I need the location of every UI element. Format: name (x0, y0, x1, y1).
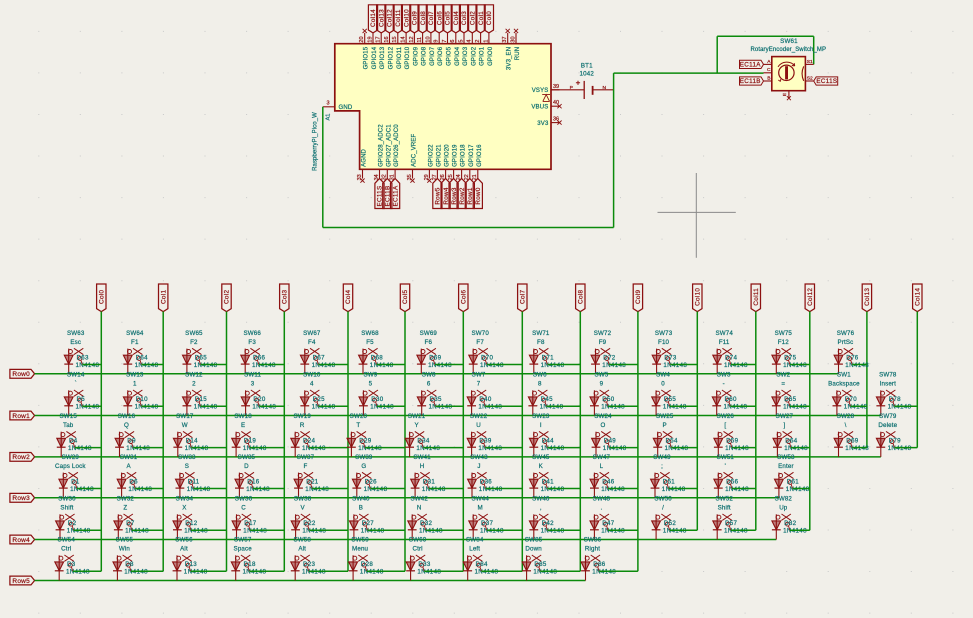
svg-text:GPIO14: GPIO14 (372, 46, 378, 69)
svg-text:SW28: SW28 (837, 413, 855, 420)
svg-text:D84: D84 (476, 561, 489, 568)
wire SW58 to Col4 (309, 570, 348, 572)
svg-text:F10: F10 (658, 339, 670, 346)
mcu pin 24 GPIO18 (461, 169, 463, 178)
wire SW18 to Col3 (250, 447, 285, 449)
svg-text:D70: D70 (845, 396, 858, 403)
diode D45 1N4148 (532, 390, 534, 415)
svg-text:1N4148: 1N4148 (243, 569, 267, 576)
svg-text:SW12: SW12 (185, 372, 203, 379)
svg-text:1N4148: 1N4148 (428, 362, 452, 369)
svg-text:D16: D16 (247, 478, 260, 485)
svg-text:SW58: SW58 (293, 537, 311, 544)
switch SW40 "B" (354, 515, 358, 519)
svg-text:D54: D54 (666, 437, 679, 444)
wire SW39 to Col5 (370, 488, 405, 490)
svg-text:SW20: SW20 (350, 413, 368, 420)
wire SW56 to Col2 (191, 570, 227, 572)
diode D23 1N4148 (294, 555, 296, 580)
svg-text:BT1: BT1 (581, 63, 593, 70)
svg-text:D45: D45 (541, 396, 554, 403)
diode D69 1N4148 (838, 432, 840, 457)
switch SW29 "Caps Lock" (63, 474, 67, 478)
svg-text:D70: D70 (481, 354, 494, 361)
svg-text:RotaryEncoder_Switch_MP: RotaryEncoder_Switch_MP (750, 47, 826, 53)
svg-text:D27: D27 (362, 520, 375, 527)
svg-text:T: T (356, 422, 360, 429)
svg-text:1N4148: 1N4148 (602, 362, 626, 369)
wire column Col1 (162, 312, 164, 572)
wire column Col13 (866, 312, 868, 448)
svg-text:1N4148: 1N4148 (417, 569, 441, 576)
diode D73 1N4148 (656, 349, 658, 374)
label EC11B (740, 77, 764, 85)
svg-text:14: 14 (401, 36, 407, 42)
mcu internal diode VBUS-VSYS (542, 95, 550, 102)
wire SW19 to Col4 (309, 447, 348, 449)
wire SW73 to Col10 (670, 364, 697, 366)
svg-text:D74: D74 (725, 354, 738, 361)
svg-text:SW67: SW67 (303, 330, 321, 337)
battery BT1 1042 (551, 89, 584, 91)
switch SW86 "Right" (585, 556, 589, 560)
svg-text:GND: GND (339, 105, 353, 111)
svg-text:1N4148: 1N4148 (663, 528, 687, 535)
svg-text:SW78: SW78 (879, 372, 897, 379)
svg-text:GPIO10: GPIO10 (405, 46, 411, 69)
svg-text:D55: D55 (664, 396, 677, 403)
wire row Row4 (35, 539, 777, 541)
diode D86 1N4148 (585, 555, 587, 580)
svg-text:W: W (182, 422, 188, 429)
svg-text:1N4148: 1N4148 (725, 445, 749, 452)
wire bottom horizontal (323, 227, 614, 229)
switch SW4 "0" (656, 391, 660, 395)
diode D64 1N4148 (127, 349, 129, 374)
svg-text:SW23: SW23 (532, 413, 550, 420)
svg-text:Shift: Shift (60, 505, 73, 512)
mcu pin 22 GPIO17 (469, 169, 471, 178)
wire row Row1 (35, 415, 881, 417)
svg-text:1N4148: 1N4148 (845, 362, 869, 369)
diode D22 1N4148 (295, 514, 297, 539)
diode D33 1N4148 (410, 555, 412, 580)
svg-text:SW76: SW76 (837, 330, 855, 337)
svg-text:SW47: SW47 (593, 454, 611, 461)
svg-text:Col13: Col13 (864, 288, 871, 306)
svg-text:Col0: Col0 (99, 289, 106, 303)
wire SW29 to Col0 (77, 488, 101, 490)
wire SW13 to Col1 (141, 405, 163, 407)
wire SW43 to Col7 (486, 488, 523, 490)
diode D79 1N4148 (880, 432, 882, 457)
switch SW39 "G" (357, 474, 361, 478)
svg-text:1N4148: 1N4148 (541, 362, 565, 369)
svg-text:D69: D69 (846, 437, 859, 444)
diode D74 1N4148 (716, 349, 718, 374)
svg-text:SW10: SW10 (303, 372, 321, 379)
svg-text:SW19: SW19 (293, 413, 311, 420)
svg-text:B: B (359, 505, 363, 512)
svg-text:EC11A: EC11A (392, 185, 399, 206)
switch SW32 "Z" (118, 515, 122, 519)
svg-text:D51: D51 (663, 478, 676, 485)
svg-text:1N4148: 1N4148 (70, 486, 94, 493)
wire column Col8 (579, 312, 581, 572)
switch SW15 "Tab" (61, 433, 65, 437)
label Row1 (10, 411, 35, 420)
svg-text:ADC_VREF: ADC_VREF (412, 134, 418, 167)
rotary encoder SW61 (772, 57, 806, 91)
switch SW21 "Y" (409, 433, 413, 437)
svg-text:D37: D37 (481, 520, 494, 527)
svg-text:1N4148: 1N4148 (784, 445, 808, 452)
svg-text:SW86: SW86 (584, 537, 602, 544)
svg-text:Y: Y (414, 422, 418, 429)
svg-text:V: V (300, 505, 305, 512)
svg-text:D34: D34 (417, 437, 430, 444)
svg-text:D49: D49 (604, 437, 617, 444)
svg-text:1N4148: 1N4148 (126, 445, 150, 452)
svg-text:1N4148: 1N4148 (478, 404, 502, 411)
svg-text:D30: D30 (371, 396, 384, 403)
wire SW60 to Col6 (424, 570, 463, 572)
wire row Row0 (35, 373, 839, 375)
svg-text:17: 17 (376, 36, 382, 42)
diode D36 1N4148 (471, 473, 473, 498)
svg-text:SW11: SW11 (244, 372, 261, 379)
mcu pin 14 GPIO10 (405, 33, 407, 44)
wire SW84 to Col7 (481, 570, 522, 572)
svg-text:SW41: SW41 (413, 454, 431, 461)
svg-text:J: J (477, 463, 480, 470)
switch SW6 "8" (533, 391, 537, 395)
wire SW23 to Col8 (547, 447, 580, 449)
wire SW57 to Col3 (249, 570, 284, 572)
switch SW49 ";" (655, 474, 659, 478)
mcu pin 27 GPIO21 (436, 169, 438, 178)
wire SW12 to Col2 (201, 405, 227, 407)
diode D3 1N4148 (58, 555, 60, 580)
svg-text:Col0: Col0 (486, 11, 493, 25)
svg-text:D78: D78 (889, 396, 902, 403)
svg-text:1N4148: 1N4148 (135, 404, 159, 411)
svg-text:SW69: SW69 (420, 330, 438, 337)
switch SW60 "Ctrl" (410, 556, 414, 560)
svg-text:1N4148: 1N4148 (601, 486, 625, 493)
wire SW36 to Col3 (250, 529, 284, 531)
diode D49 1N4148 (595, 432, 597, 457)
diode D65 1N4148 (775, 390, 777, 415)
diode D24 1N4148 (294, 432, 296, 457)
svg-text:11: 11 (417, 37, 423, 43)
label Col4 (343, 284, 352, 312)
diode D84 1N4148 (467, 555, 469, 580)
svg-text:Col14: Col14 (915, 288, 922, 306)
svg-text:Row4: Row4 (12, 537, 30, 544)
svg-text:PrtSc: PrtSc (838, 339, 854, 346)
switch SW38 "V" (295, 515, 299, 519)
label Row2 (10, 453, 35, 462)
svg-text:O: O (601, 422, 606, 429)
svg-text:Right: Right (585, 546, 600, 553)
label Col2 (222, 284, 231, 312)
switch SW41 "H" (415, 474, 419, 478)
svg-text:D1: D1 (71, 478, 80, 485)
svg-text:D26: D26 (365, 478, 378, 485)
mcu pin 30 RUN (515, 33, 517, 44)
switch SW7 "7" (471, 391, 475, 395)
svg-text:SW53: SW53 (777, 454, 795, 461)
svg-text:1N4148: 1N4148 (541, 528, 565, 535)
svg-text:SW29: SW29 (62, 454, 80, 461)
svg-text:1N4148: 1N4148 (888, 404, 912, 411)
svg-text:1N4148: 1N4148 (128, 486, 152, 493)
svg-text:D2: D2 (68, 520, 77, 527)
svg-text:SW60: SW60 (409, 537, 427, 544)
switch SW9 "5" (363, 391, 367, 395)
svg-text:SW26: SW26 (717, 413, 735, 420)
switch SW45 "K" (534, 474, 538, 478)
svg-text:F4: F4 (308, 339, 316, 346)
svg-text:D56: D56 (726, 478, 739, 485)
svg-text:D61: D61 (787, 478, 800, 485)
switch SW82 "Up" (776, 515, 780, 519)
wire SW3 to Col11 (730, 405, 756, 407)
svg-text:D67: D67 (313, 354, 326, 361)
mcu pin 2 GPIO1 (480, 33, 482, 44)
svg-text:1N4148: 1N4148 (725, 486, 749, 493)
svg-text:3: 3 (251, 381, 255, 388)
svg-text:1N4148: 1N4148 (783, 404, 807, 411)
svg-text:12: 12 (409, 36, 415, 42)
svg-text:1N4148: 1N4148 (422, 486, 446, 493)
svg-text:1N4148: 1N4148 (724, 362, 748, 369)
switch SW75 "F12" (776, 350, 780, 354)
svg-text:D22: D22 (303, 520, 316, 527)
svg-text:SW5: SW5 (594, 372, 608, 379)
svg-text:1N4148: 1N4148 (66, 569, 90, 576)
svg-text:GPIO4: GPIO4 (455, 46, 461, 66)
svg-text:C: C (241, 505, 246, 512)
svg-text:SW61: SW61 (780, 38, 798, 45)
switch SW74 "F11" (717, 350, 721, 354)
svg-text:1N4148: 1N4148 (786, 486, 810, 493)
switch SW18 "E" (236, 433, 240, 437)
svg-text:37: 37 (502, 36, 508, 42)
svg-text:M: M (478, 505, 483, 512)
svg-text:D17: D17 (244, 520, 257, 527)
wire encoder S1 loop vertical left (716, 36, 718, 73)
wire SW79 to Col14 (894, 447, 917, 449)
label EC11S (814, 77, 838, 85)
wire SW33 to Col2 (194, 488, 227, 490)
wire SW52 to Col11 (731, 529, 756, 531)
svg-text:D4: D4 (69, 437, 78, 444)
diode D35 1N4148 (421, 390, 423, 415)
wire SW27 to Col12 (791, 447, 810, 449)
svg-text:1N4148: 1N4148 (603, 445, 627, 452)
switch SW63 "Esc" (68, 350, 72, 354)
svg-text:D85: D85 (534, 561, 547, 568)
switch SW33 "S" (180, 474, 184, 478)
svg-text:7: 7 (477, 381, 481, 388)
svg-text:SW24: SW24 (594, 413, 612, 420)
diode D47 1N4148 (593, 514, 595, 539)
switch SW73 "F10" (656, 350, 660, 354)
svg-text:SW57: SW57 (234, 537, 252, 544)
switch SW66 "F3" (245, 350, 249, 354)
svg-text:SW66: SW66 (243, 330, 261, 337)
svg-text:`: ` (75, 381, 77, 388)
svg-text:D40: D40 (479, 396, 492, 403)
svg-text:Backspace: Backspace (828, 381, 860, 388)
svg-text:1N4148: 1N4148 (243, 528, 267, 535)
svg-text:SW27: SW27 (776, 413, 794, 420)
svg-text:Col4: Col4 (345, 289, 352, 303)
svg-text:9: 9 (600, 381, 604, 388)
svg-text:D46: D46 (602, 478, 615, 485)
svg-text:Col9: Col9 (635, 289, 642, 303)
wire column Col2 (226, 312, 228, 572)
svg-text:Ctrl: Ctrl (61, 546, 71, 553)
svg-text:Z: Z (123, 505, 127, 512)
diode D5 1N4148 (68, 390, 70, 415)
wire SW6 to Col8 (546, 405, 580, 407)
switch SW11 "3" (245, 391, 249, 395)
svg-text:1N4148: 1N4148 (252, 362, 276, 369)
mcu pin 5 GPIO3 (463, 33, 465, 44)
svg-text:5: 5 (369, 381, 373, 388)
svg-text:GPIO12: GPIO12 (389, 46, 395, 69)
switch SW13 "1" (128, 391, 132, 395)
svg-text:SW49: SW49 (653, 454, 671, 461)
mcu pin 1 GPIO0 (488, 33, 490, 44)
wire SW64 to Col1 (141, 364, 163, 366)
diode D28 1N4148 (352, 555, 354, 580)
svg-text:=: = (781, 381, 785, 388)
svg-text:F11: F11 (719, 339, 730, 346)
switch SW10 "4" (305, 391, 309, 395)
svg-text:L: L (600, 463, 604, 470)
svg-text:SW63: SW63 (67, 330, 85, 337)
svg-text:19: 19 (367, 36, 373, 42)
svg-text:SW42: SW42 (410, 496, 428, 503)
svg-text:D36: D36 (480, 478, 493, 485)
switch SW56 "Alt" (177, 556, 181, 560)
diode D50 1N4148 (593, 390, 595, 415)
svg-text:1N4148: 1N4148 (312, 404, 336, 411)
svg-text:D63: D63 (77, 354, 90, 361)
diode D42 1N4148 (533, 514, 535, 539)
svg-text:GPIO0: GPIO0 (488, 46, 494, 66)
mcu pin 9 GPIO6 (438, 33, 440, 44)
svg-text:D57: D57 (725, 520, 738, 527)
wire SW48 to Col9 (608, 529, 638, 531)
wire SW42 to Col6 (426, 529, 464, 531)
svg-text:39: 39 (553, 84, 559, 90)
mcu pin 4 GPIO2 (471, 33, 473, 44)
diode D14 1N4148 (177, 432, 179, 457)
svg-text:SW73: SW73 (655, 330, 673, 337)
diode D16 1N4148 (238, 473, 240, 498)
diode D30 1N4148 (362, 390, 364, 415)
switch SW78 "Insert" (881, 391, 885, 395)
svg-text:1N4148: 1N4148 (663, 404, 687, 411)
diode D56 1N4148 (717, 473, 719, 498)
wire SW70 to Col7 (487, 364, 523, 366)
svg-text:Row0: Row0 (475, 187, 482, 204)
svg-text:1N4148: 1N4148 (724, 528, 748, 535)
diode D61 1N4148 (778, 473, 780, 498)
cursor crosshair (658, 211, 736, 213)
switch SW58 "Alt" (295, 556, 299, 560)
wire SW51 to Col11 (732, 488, 756, 490)
svg-text:D23: D23 (303, 561, 316, 568)
diode D2 1N4148 (59, 514, 61, 539)
svg-text:D79: D79 (889, 437, 902, 444)
svg-text:SW74: SW74 (715, 330, 733, 337)
svg-text:3V3_EN: 3V3_EN (507, 47, 513, 70)
mcu pin 31 GPIO26_ADC0 (394, 169, 396, 178)
svg-text:VBUS: VBUS (531, 104, 548, 110)
svg-text:Esc: Esc (70, 339, 81, 346)
svg-text:F7: F7 (476, 339, 484, 346)
svg-text:D12: D12 (185, 520, 198, 527)
switch SW5 "9" (594, 391, 598, 395)
switch SW48 "." (594, 515, 598, 519)
svg-text:SW51: SW51 (717, 454, 735, 461)
wire SW9 to Col5 (377, 405, 405, 407)
svg-text:1N4148: 1N4148 (370, 362, 394, 369)
diode D63 1N4148 (68, 349, 70, 374)
svg-text:E: E (241, 422, 245, 429)
svg-text:,: , (540, 505, 542, 512)
diode D12 1N4148 (176, 514, 178, 539)
svg-text:SW75: SW75 (775, 330, 793, 337)
svg-text:SW7: SW7 (472, 372, 486, 379)
switch SW19 "R" (295, 433, 299, 437)
svg-text:D68: D68 (371, 354, 384, 361)
switch SW50 "/" (656, 515, 660, 519)
svg-text:1N4148: 1N4148 (663, 362, 687, 369)
diode D82 1N4148 (775, 514, 777, 539)
switch SW1 "Backspace" (837, 391, 841, 395)
svg-text:1N4148: 1N4148 (541, 445, 565, 452)
svg-text:SW46: SW46 (532, 496, 550, 503)
svg-text:1N4148: 1N4148 (312, 362, 336, 369)
switch SW46 "," (534, 515, 538, 519)
svg-text:D28: D28 (361, 561, 374, 568)
mcu U1 RaspberryPi_Pico_W body (335, 44, 551, 170)
mcu pin 17 GPIO13 (380, 33, 382, 44)
svg-text:1N4148: 1N4148 (125, 528, 149, 535)
switch SW44 "M" (473, 515, 477, 519)
svg-text:VSYS: VSYS (532, 88, 549, 94)
diode D17 1N4148 (236, 514, 238, 539)
wire SW34 to Col2 (191, 529, 227, 531)
wire SW85 to Col8 (540, 570, 580, 572)
svg-text:SW31: SW31 (120, 454, 138, 461)
svg-text:1N4148: 1N4148 (302, 445, 326, 452)
wire SW17 to Col2 (191, 447, 226, 449)
wire column Col6 (462, 312, 464, 572)
svg-text:1N4148: 1N4148 (540, 404, 564, 411)
svg-text:I: I (540, 422, 542, 429)
svg-text:GPIO8: GPIO8 (422, 46, 428, 66)
svg-text:SW79: SW79 (879, 413, 897, 420)
switch SW52 "Shift" (717, 515, 721, 519)
